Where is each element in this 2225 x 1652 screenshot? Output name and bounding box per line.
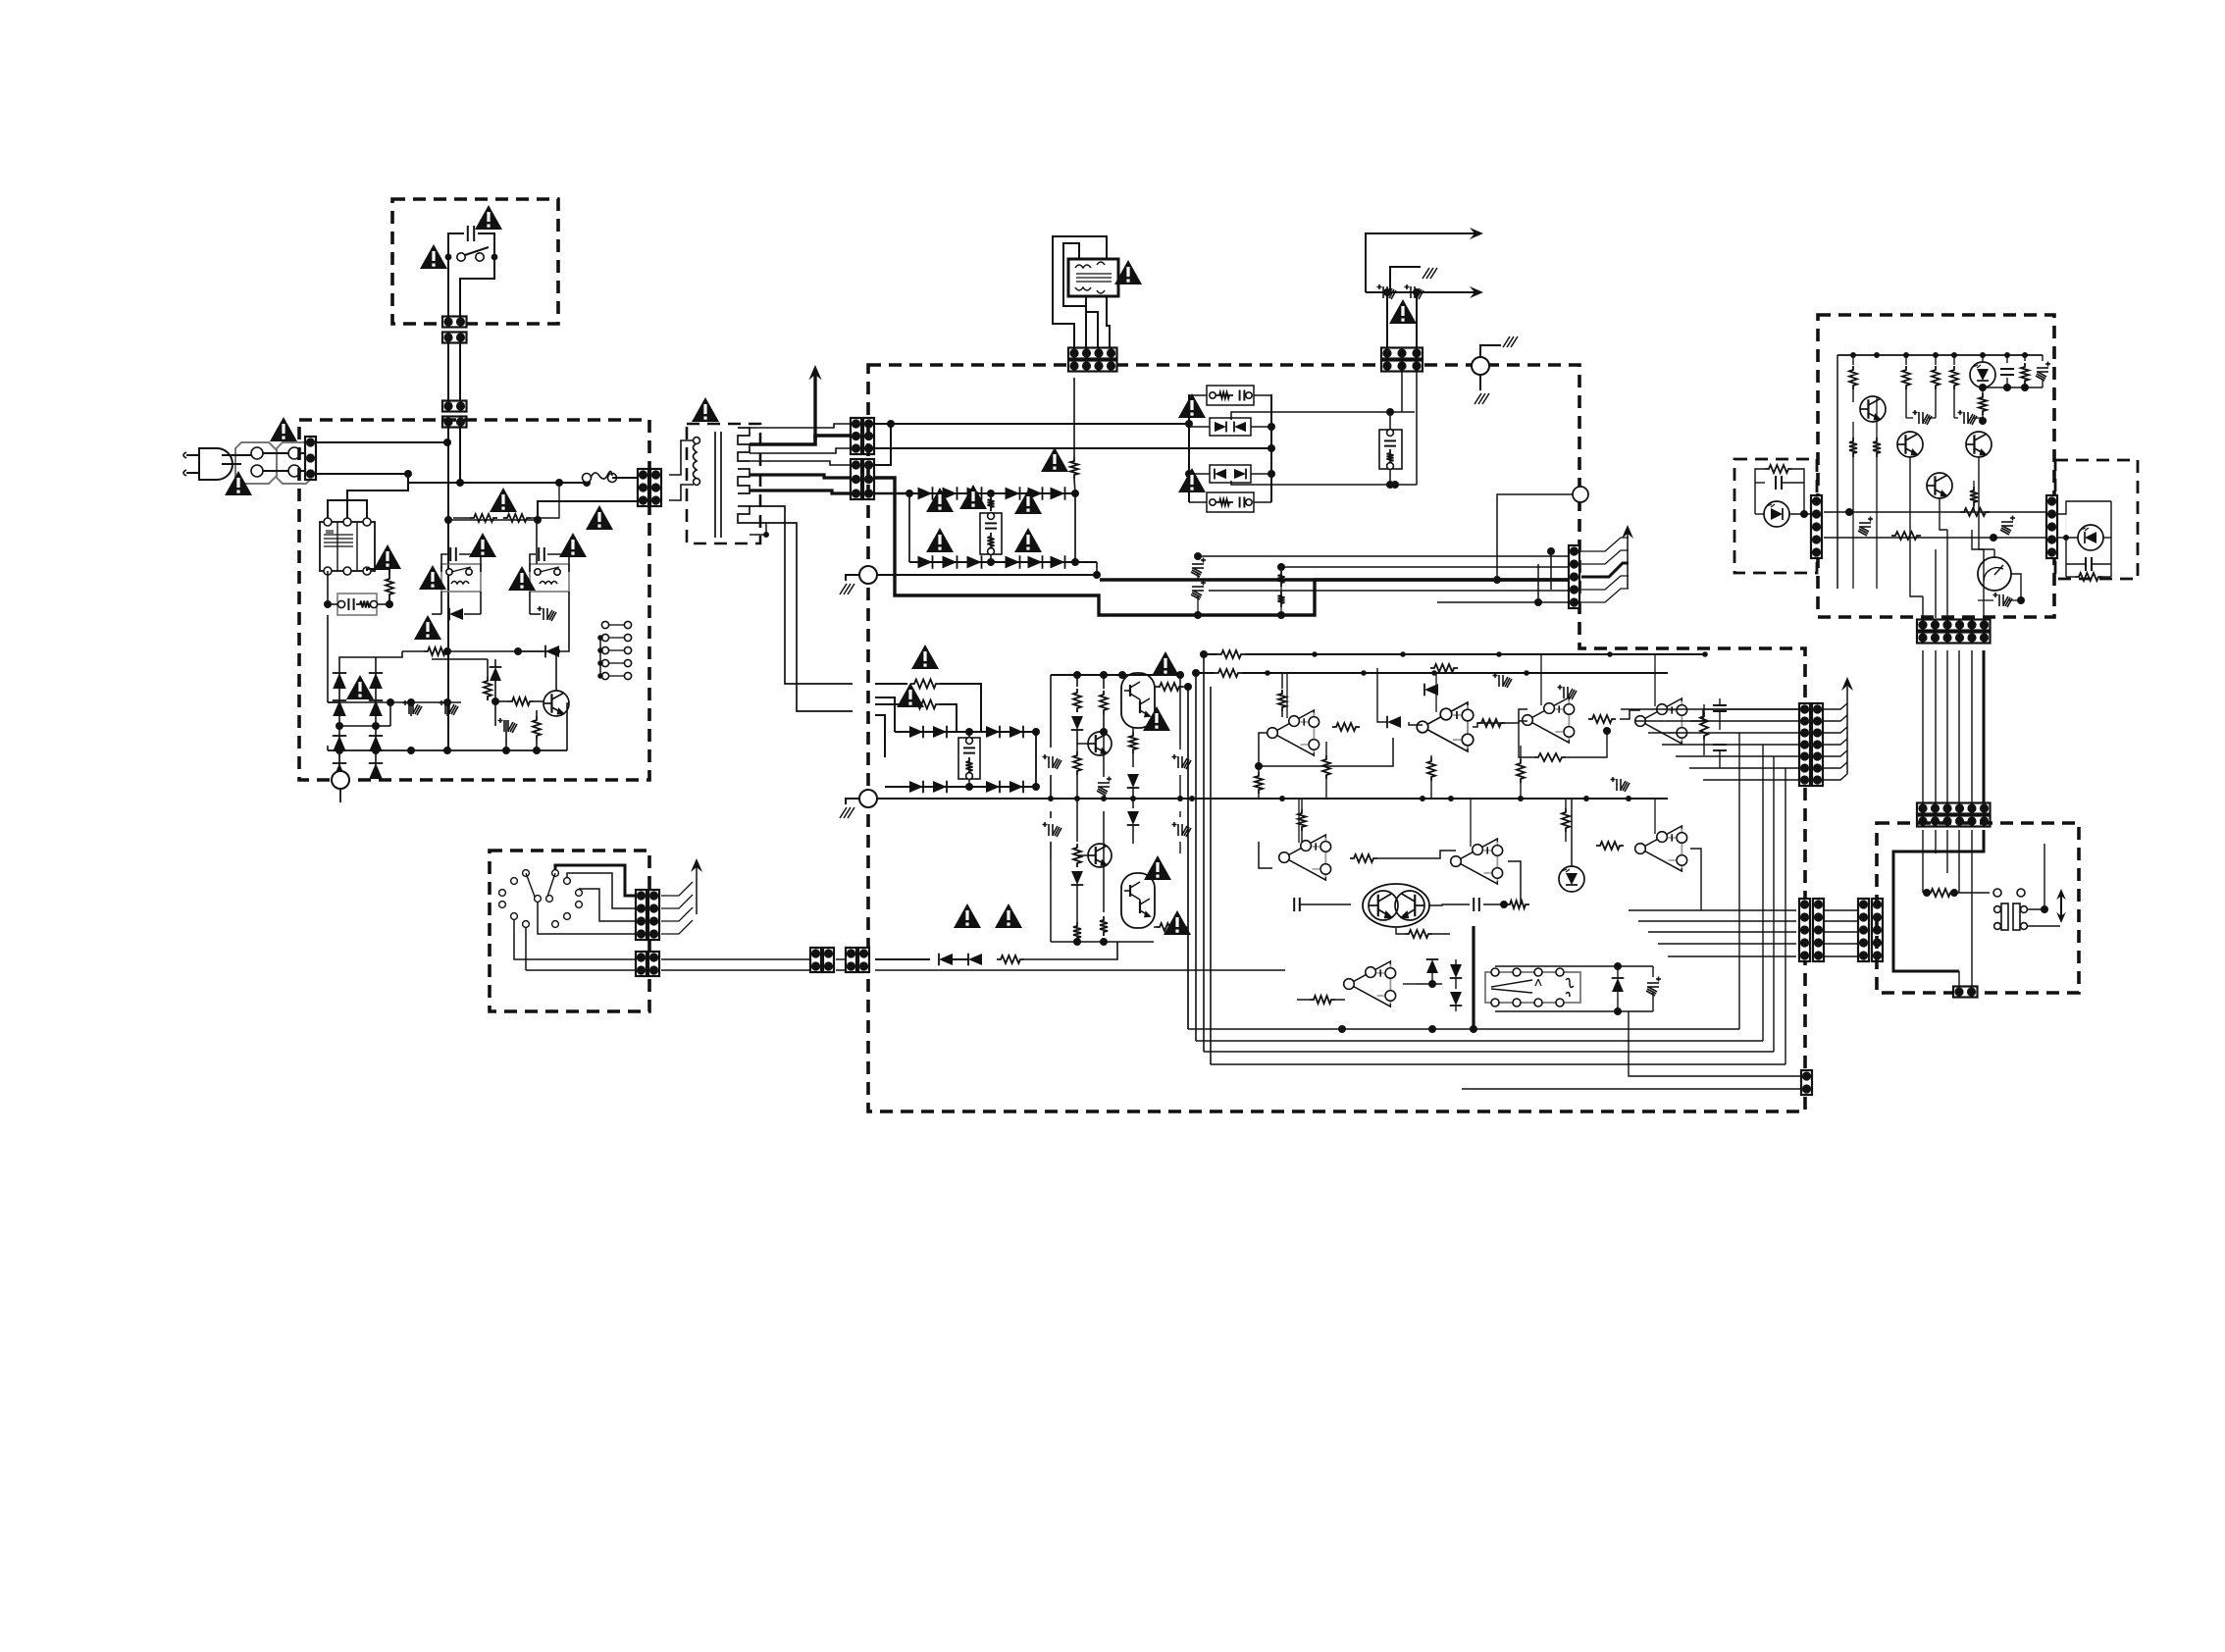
wire op-amp outputs to bus <box>1690 709 1799 721</box>
RC smoothing box <box>980 513 1002 554</box>
warning triangle <box>1389 299 1417 324</box>
bottom collector rails <box>1188 1028 1739 1030</box>
harness fan to next sheet arrow <box>1824 703 1847 709</box>
speaker selector dashed enclosure <box>490 851 649 1011</box>
op-amp IC4a <box>1451 839 1503 884</box>
electrolytic cap <box>498 718 518 733</box>
record out coupler dashed enclosure <box>1734 459 1817 573</box>
speaker wires to main board <box>661 958 812 960</box>
bias ecaps <box>1913 410 1933 425</box>
wire sense circle <box>1573 487 1588 502</box>
power indicator photocoupler <box>1970 362 1995 387</box>
capacitor across switch <box>467 226 469 241</box>
resistor pair horizontal top <box>470 514 497 522</box>
bias caps on links <box>1858 517 1873 537</box>
cap <box>1775 476 1777 490</box>
connector CN transformer upper pair <box>851 418 861 454</box>
resistor chain x1098 <box>1076 675 1078 687</box>
electrolytic cap <box>2042 355 2044 361</box>
plug body block A <box>235 442 277 484</box>
warning triangle <box>270 417 297 441</box>
wire IC1b to res link <box>1473 723 1509 727</box>
wires to bottom connector <box>1971 917 1973 986</box>
wire down to mains unit <box>447 343 449 400</box>
wire IC2a input link <box>1509 709 1527 723</box>
wire feed 2 <box>875 697 895 732</box>
vertical bundle from bottom rails <box>1738 733 1740 1029</box>
wires to bottom-right connector <box>1629 1011 1803 1076</box>
bridge diode column 1 <box>333 673 346 689</box>
wire IC3a output link <box>1690 849 1701 910</box>
feedback network IC1b loop <box>1409 722 1423 725</box>
bridge rectifier bottom row <box>909 561 1097 563</box>
wire link connector pair B <box>846 948 856 972</box>
coupler connector 5pin <box>2046 495 2057 558</box>
feedback resistor <box>1765 465 1792 473</box>
wire connector return <box>538 501 638 520</box>
output harness crossing lattice <box>1550 551 1552 590</box>
headphone connector 5pin pair B <box>1813 899 1824 961</box>
bottom 2pin connector <box>1801 1070 1812 1095</box>
left drop wire <box>1837 355 1838 589</box>
bottom-left feed wires <box>875 958 930 960</box>
thick tap wire with arrow branch <box>750 436 853 444</box>
zener diode <box>490 667 502 681</box>
driver transistor Q lower <box>1088 844 1112 867</box>
display pcb dashed enclosure <box>1818 315 2054 617</box>
resistor verticals op-amp area <box>1322 755 1330 779</box>
wire collector <box>555 651 557 691</box>
wire to-preamp arrow top <box>1366 233 1476 292</box>
wire bridge feed <box>875 492 909 495</box>
caps and resistors right stack <box>1700 712 1708 740</box>
feedback resistor over IC1b <box>1430 664 1458 672</box>
power switch S1 <box>457 253 465 261</box>
wire loop <box>2058 501 2111 514</box>
connector CN filter pair row2 <box>1068 361 1117 372</box>
resistor emitter <box>1970 487 1978 506</box>
tap wire <box>750 448 853 453</box>
resistor emitter <box>1129 732 1137 753</box>
switch contacts <box>1993 889 2001 897</box>
photocoupler <box>1764 501 1789 527</box>
diode pair <box>939 954 953 966</box>
wire jack to right <box>2027 908 2044 910</box>
arrow to next sheet <box>813 373 816 439</box>
thick return wire <box>1893 830 1984 971</box>
wire bridge output <box>1035 732 1037 787</box>
caps around diff pair <box>1293 898 1295 911</box>
wire harness down to jack board <box>1922 650 1924 802</box>
resistor drops from rail <box>1852 355 1854 365</box>
transformer primary winding <box>694 443 698 479</box>
speaker protection contacts block <box>1188 394 1190 502</box>
jack switch resistor <box>1927 889 1954 897</box>
connector CN fuse out pair <box>638 469 648 506</box>
AC mains plug <box>199 448 233 480</box>
resistor below coupler <box>1979 393 1987 415</box>
transformer secondary windings <box>738 428 750 461</box>
rotary selector contacts <box>499 890 506 897</box>
coupler connector 5pin <box>1811 495 1822 558</box>
thick output bus <box>1100 578 1569 581</box>
top supply rail <box>1837 354 2043 356</box>
diode D2 <box>545 645 559 658</box>
voltage selector switch block <box>601 621 608 628</box>
darlington output device lower <box>1121 873 1155 928</box>
snubber lower <box>1207 492 1254 512</box>
wire link wires <box>836 958 848 960</box>
vertical output rails <box>1187 687 1189 1029</box>
ecap by meter <box>1993 593 2013 607</box>
relay catch diode <box>1612 978 1625 992</box>
resistor x1125 upper <box>1103 675 1105 689</box>
jack plates <box>2001 903 2008 930</box>
connector CN signal row1 <box>1381 348 1423 359</box>
wire feeds from transformer connector <box>875 683 907 685</box>
RC box lower bridge <box>958 738 980 779</box>
ecap on rail <box>1172 754 1192 769</box>
bleeder resistor <box>2024 355 2026 361</box>
wire filter loop <box>1053 236 1107 347</box>
wire mid bus <box>328 701 461 703</box>
capacitor before RY1 <box>449 547 451 561</box>
ground lug on enclosure edge <box>859 566 877 584</box>
resistor horizontal <box>424 647 449 655</box>
wire IC3b input link <box>1259 842 1272 868</box>
meter M <box>1978 557 2011 591</box>
resistor under diff pair <box>1405 930 1432 938</box>
warning triangle <box>225 471 252 495</box>
wire low feed 2 <box>875 969 1285 971</box>
transformer core <box>714 432 716 538</box>
cap <box>2085 557 2087 571</box>
resistor <box>910 700 940 709</box>
wire IC2b input link <box>1620 710 1640 719</box>
thick main bus <box>875 478 1569 615</box>
horizontal link wires <box>1824 511 2050 513</box>
tap wires to low-voltage connector <box>750 506 853 684</box>
wire contact tap lower <box>1231 481 1395 485</box>
selector wires <box>567 873 638 908</box>
feedback diodes <box>1387 716 1401 729</box>
wire vertical main drop <box>447 428 449 750</box>
interconnect wires between connector pairs <box>1824 909 1858 911</box>
wire bus down left <box>327 615 329 702</box>
differential pair <box>1363 884 1429 927</box>
chassis ground lug <box>1472 357 1489 375</box>
wire mains neutral <box>316 474 587 483</box>
selector connector 4pin pair <box>636 890 647 940</box>
wire bridge mid taps <box>339 725 376 727</box>
feed wires to output connector <box>1198 555 1569 557</box>
double arrow jack plunger <box>2060 892 2062 920</box>
wire down to connector <box>1386 292 1388 347</box>
resistor after upper darlington <box>1156 683 1183 691</box>
wire bridge top <box>339 651 402 667</box>
wire IC4a output link <box>1508 861 1521 904</box>
wire snubber <box>327 571 329 604</box>
long rails to bottom bus <box>1195 673 1197 1041</box>
photocoupler <box>2078 525 2103 550</box>
transistor Q display 2 <box>1897 432 1923 457</box>
relay RY1 <box>441 564 481 592</box>
bottom rail <box>1051 941 1154 943</box>
op-amp IC3b <box>1279 835 1331 880</box>
wire coupler to rail <box>1571 799 1573 866</box>
diodes at op-amp IC4b output <box>1403 983 1417 985</box>
power transformer T1 dashed enclosure <box>687 424 760 543</box>
regulator transistor Q1 <box>543 691 569 716</box>
snubber resistor into RC box <box>988 495 995 511</box>
transistor Q display 4 <box>1927 473 1952 498</box>
main multiway connector 7pin pair <box>1799 703 1810 786</box>
wire connector drops to RC box <box>1401 372 1403 412</box>
resistor emitter circuit <box>484 677 492 700</box>
relay RY2 <box>530 564 569 592</box>
resistor bottom x1098 <box>1073 922 1081 942</box>
snubber upper <box>1207 386 1254 405</box>
primary power unit dashed enclosure <box>299 420 649 780</box>
headphone jack dashed enclosure <box>1877 823 2079 993</box>
warning triangle <box>475 205 502 230</box>
wires to headphone connectors <box>1629 909 1796 911</box>
ecap symbols in op-amp area <box>1493 673 1513 688</box>
RC snubber box <box>337 594 377 615</box>
ecap stubs on output bus <box>1191 558 1206 578</box>
wires into box <box>1922 830 1924 893</box>
wire fuse to connector <box>612 477 638 479</box>
resistor <box>997 955 1024 963</box>
main amplifier board dashed enclosure <box>868 365 1805 1111</box>
op-amp IC2a <box>1523 697 1575 743</box>
selector wires thick <box>555 865 638 896</box>
warning triangles in primary unit <box>490 488 517 512</box>
connector CN half lower <box>442 417 467 428</box>
resistor <box>1073 751 1081 775</box>
lower bridge bottom row <box>885 786 1036 788</box>
filter cap <box>2006 355 2008 363</box>
wire link connector pair A <box>810 948 821 972</box>
fuse F1 <box>583 474 592 483</box>
electrolytic caps on bus <box>403 700 423 715</box>
diode D1 <box>449 608 463 621</box>
display connector 6pin pair <box>1917 620 1991 631</box>
op-amp IC4b <box>1344 961 1396 1007</box>
wire bottom bus <box>328 749 567 751</box>
op-amp IC3a <box>1635 826 1687 871</box>
plug body block B <box>277 442 314 484</box>
wires from transistors down to connector <box>1922 596 1924 618</box>
connector CN signal row2 <box>1381 361 1423 372</box>
ecap mid <box>1097 777 1112 797</box>
sub rail <box>1983 387 2043 388</box>
power transformer T1 primary side <box>320 522 375 571</box>
wire switch to connector <box>447 257 449 316</box>
wire crossing feed <box>875 447 1271 449</box>
resistor vertical <box>533 716 541 740</box>
relay contact pair upper <box>1210 418 1251 436</box>
ecap by relay <box>1646 977 1661 997</box>
wire relay top feed <box>1495 965 1653 967</box>
resistor <box>910 680 940 689</box>
warning triangles <box>1178 393 1206 418</box>
warning triangle <box>1114 260 1142 284</box>
meter wires <box>1993 549 1995 557</box>
stub resistors <box>1849 438 1857 457</box>
resistor stubs on output bus <box>1278 571 1285 587</box>
filter feed resistor <box>1073 378 1075 457</box>
op-amp IC2b <box>1635 698 1687 744</box>
connector CN transformer lower pair <box>851 459 861 499</box>
relay contact pair lower <box>1210 465 1251 483</box>
wire plug pins to connector <box>222 454 251 456</box>
selector ground wire <box>514 920 638 959</box>
electrolytic cap <box>538 606 557 621</box>
selector connector 2pin pair <box>636 952 647 976</box>
bottom 2pin connector <box>1953 987 1978 998</box>
positive rail upper <box>1051 674 1154 676</box>
electrolytic caps <box>1043 754 1062 769</box>
connector CN filter pair row1 <box>1068 348 1117 359</box>
driver transistor Q upper <box>1088 732 1112 755</box>
op-amp IC1b <box>1417 702 1474 751</box>
darlington output device upper <box>1121 673 1155 728</box>
headphone connector 5pin pair A <box>1799 899 1810 961</box>
jack connector 6pin pair <box>1917 803 1991 814</box>
bridge diode column 2 <box>369 673 383 689</box>
ground stub <box>1390 267 1421 292</box>
feed wire 4 <box>1209 590 1569 592</box>
wire feed 3 <box>875 715 885 757</box>
wire IC4a input link <box>1377 851 1456 858</box>
wire bridge side links <box>908 493 910 562</box>
headphone connector 5pin pair C <box>1858 899 1869 961</box>
coupling resistors between stages <box>1332 723 1360 731</box>
wire mains live <box>316 441 447 443</box>
transistor Q display 1 <box>1860 396 1886 422</box>
bias resistor above IC1a <box>1281 673 1283 689</box>
wire op-amp supply stubs <box>1286 673 1288 718</box>
warning triangle <box>692 397 719 422</box>
feed wire 5 <box>1437 601 1569 603</box>
wire relay feeds <box>447 520 449 564</box>
line filter L1 <box>1068 259 1118 296</box>
connector CN output 5pin <box>1569 545 1579 608</box>
resistor <box>1076 799 1078 842</box>
feedback resistor IC2a <box>1534 753 1566 761</box>
connector CN half lower <box>442 333 467 343</box>
muting relay RY3 <box>1485 972 1580 1003</box>
bus wires into main connector <box>1621 708 1799 710</box>
power switch unit dashed enclosure <box>392 199 558 324</box>
warning triangles <box>911 645 939 669</box>
supply rail lower <box>1215 669 1242 677</box>
photocoupler mid <box>1559 866 1584 892</box>
main ground rail <box>859 790 877 807</box>
wire diffpair connections <box>1300 903 1351 905</box>
transistor Q display 3 <box>1966 432 1992 457</box>
thick rail drop <box>1472 926 1475 1029</box>
muting circuit feed <box>1310 996 1335 1004</box>
connector CN half upper <box>442 317 467 328</box>
wire switch loop <box>448 233 464 257</box>
wire to fuse <box>586 478 588 483</box>
resistor bottom x1125 <box>1103 811 1105 912</box>
wire second drop <box>459 428 461 483</box>
selector harness fan arrow <box>661 882 693 896</box>
wire link lower connector to upper rail <box>875 424 891 465</box>
warning triangle <box>420 244 447 269</box>
wire under relay <box>1495 1010 1653 1012</box>
resistor divider vertical <box>386 575 393 598</box>
op-amp IC1a <box>1268 710 1319 755</box>
diode <box>1071 871 1084 885</box>
thick tap wires lower <box>750 475 853 478</box>
lower bridge top row <box>895 731 1036 733</box>
connector CN half upper <box>442 401 467 412</box>
wire contact tap upper <box>1231 412 1390 420</box>
wire rectifier feed upper <box>875 423 1189 425</box>
selector levers <box>526 873 535 897</box>
secondary tap wires <box>750 424 853 428</box>
bridge rectifier top row <box>909 492 1075 494</box>
connector CN mains <box>305 437 316 480</box>
tape out coupler dashed enclosure <box>2055 460 2138 579</box>
capacitor before RY2 <box>538 547 540 561</box>
zener diodes center <box>1127 774 1140 788</box>
warning triangles around bridge <box>926 488 954 512</box>
resistor <box>2075 573 2102 581</box>
ground terminal <box>332 771 349 789</box>
supply rail upper <box>1217 650 1245 658</box>
wire transformer feeds <box>328 500 367 518</box>
output harness fan-out arrow <box>1581 538 1629 551</box>
resistor after lower darlington <box>1156 923 1183 931</box>
tap wire thin <box>750 461 853 465</box>
feedback wires IC1a <box>1259 733 1393 766</box>
resistor base <box>508 697 534 705</box>
diode <box>1071 716 1084 730</box>
coupling caps on arrow line <box>1366 291 1477 293</box>
RC box at relay <box>1379 430 1402 469</box>
headphone connector 5pin pair D <box>1872 899 1883 961</box>
